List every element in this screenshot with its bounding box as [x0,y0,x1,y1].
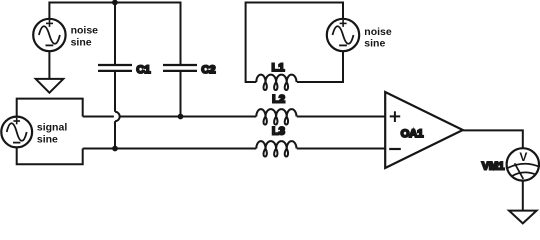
svg-text:L3: L3 [272,126,285,138]
wire lower rail segment A [83,148,257,150]
label noise sine (left) [71,25,99,49]
svg-text:L1: L1 [272,62,285,74]
capacitor C2 [163,65,197,71]
wire lower rail segment B [297,148,385,150]
V2 plus mark [340,20,347,27]
wire C1 bottom lead lower part [114,121,116,148]
ground symbol left [36,79,64,93]
V2 minus mark [339,44,347,46]
signal source box SIG1 [17,99,83,165]
node junction C1 to lower rail [112,146,118,152]
svg-text:sine: sine [37,134,58,146]
wire hop over upper rail [115,112,120,121]
svg-text:C2: C2 [201,64,215,76]
OA1 minus input mark [389,148,401,150]
VM1 meter scale arc inner [512,172,535,176]
wire V1 to ground [48,51,50,79]
inductor L1 [256,75,296,90]
label noise sine (right) [364,26,392,49]
svg-text:noise: noise [364,26,392,38]
V1 minus mark [46,44,54,46]
wire upper rail segment C [297,116,385,118]
svg-text:V: V [519,150,527,164]
inductor L3 [256,141,296,156]
wire upper rail segment A [83,116,114,118]
svg-text:noise: noise [71,25,99,37]
voltage source V2 noise sine circle [327,19,359,51]
OA1 plus input mark [390,111,401,122]
svg-text:OA1: OA1 [401,128,424,140]
signal source circle [1,117,32,148]
label signal sine [37,122,67,146]
wire C2 bottom lead [180,72,182,117]
svg-text:VM1: VM1 [482,161,505,173]
VM1 needle [515,163,524,179]
L1 loop left and top and right wires [246,3,343,83]
node junction C1 top [112,0,118,5]
signal source plus mark [13,118,20,125]
V1 plus mark [46,20,53,27]
wire V2 bottom to L1 [297,51,343,82]
svg-text:C1: C1 [136,64,150,76]
signal source sine wave [7,123,27,141]
V1 sine wave [39,26,60,44]
node junction C2 to upper rail [178,114,184,120]
svg-text:L2: L2 [272,94,285,106]
wire OA1 output [463,130,523,148]
wire C1 bottom lead upper part [114,72,116,112]
wire upper rail segment B [120,116,256,118]
op-amp OA1 triangle [385,92,463,168]
voltmeter VM1 circle [507,148,539,180]
svg-text:sine: sine [364,37,385,49]
V2 sine wave [333,26,354,44]
inductor L2 [256,109,296,124]
VM1 meter scale arc outer [507,164,538,168]
voltage source V1 noise sine circle [33,19,65,51]
signal source minus mark [13,142,20,144]
wire top rail from V1 to C2 [49,3,180,65]
ground symbol right [509,211,537,224]
wire C1 top lead [114,3,116,65]
svg-text:signal: signal [37,122,67,134]
svg-text:sine: sine [71,37,92,49]
capacitor C1 [98,65,132,71]
wire VM1 to ground [522,181,524,211]
